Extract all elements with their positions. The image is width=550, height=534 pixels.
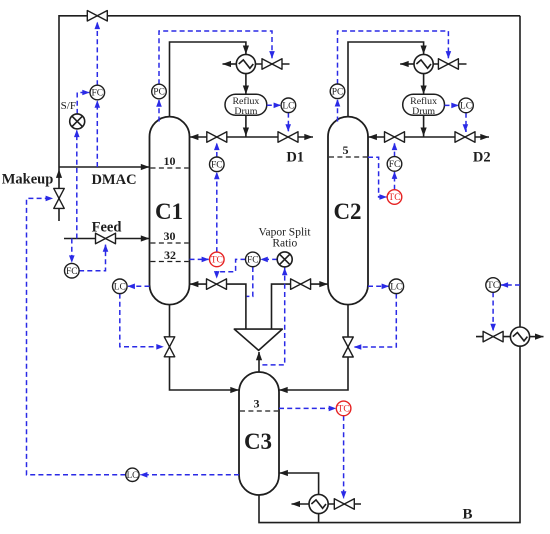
controller FC solvent-to-feed	[90, 85, 105, 100]
control line: C1 pressure tap to PC	[158, 100, 160, 122]
tray 10 line in C1	[151, 167, 189, 169]
control line: C3 level to LC	[140, 474, 239, 476]
svg-text:5: 5	[343, 143, 349, 157]
control line: FC to recycle top valve	[96, 22, 98, 85]
control line: FC to reflux 2 valve	[394, 143, 396, 157]
valve reflux 2	[385, 132, 405, 143]
ratio element vapor split multiplier	[277, 252, 292, 267]
column C2	[328, 117, 368, 305]
control line: LC to D2 valve	[464, 113, 467, 132]
vapor splitter triangle	[234, 329, 282, 350]
wire: vapor branch to C1 bottom	[190, 284, 246, 329]
valve makeup	[54, 188, 65, 208]
control line: C1 level to LC	[128, 285, 150, 287]
condenser 1 heat exchanger	[236, 54, 255, 73]
wire: vapor branch to C2 bottom	[272, 284, 329, 329]
svg-text:TC: TC	[338, 405, 350, 415]
control line: TC to reboiler steam valve	[343, 416, 345, 499]
reflux drum 2	[403, 94, 445, 115]
svg-text:D2: D2	[473, 149, 491, 165]
svg-text:C1: C1	[155, 199, 183, 224]
valve vapor to C1	[207, 279, 227, 290]
wire: condenser 1 coolant inlet	[255, 63, 289, 65]
valve C1 bottoms	[164, 337, 175, 357]
control line: LC to C2 bottoms valve	[354, 294, 396, 347]
controller FC reflux 2	[387, 157, 402, 172]
wire: condenser 2 to reflux drum 2	[423, 73, 425, 94]
wire: C3 bottoms / recycle line (bottom and right side)	[259, 16, 520, 523]
svg-text:FC: FC	[389, 160, 401, 170]
control line: feed FC to feed valve	[79, 245, 105, 271]
valve condenser 2 coolant	[438, 59, 458, 70]
svg-text:FC: FC	[66, 267, 78, 277]
valve D2	[455, 132, 475, 143]
svg-text:LC: LC	[282, 102, 294, 112]
control line: PC to condenser 1 coolant valve	[159, 31, 272, 84]
valve reboiler steam	[334, 499, 354, 510]
control line: C2 level to LC	[368, 285, 389, 287]
controller PC column 2	[330, 84, 345, 99]
wire: condenser 2 coolant inlet	[433, 63, 467, 65]
svg-text:B: B	[462, 506, 472, 522]
valve vapor to C2	[291, 279, 311, 290]
controller FC vapor split	[246, 252, 261, 267]
recycle cooler heat exchanger	[510, 327, 529, 346]
valve D1	[278, 132, 298, 143]
wire: recycle cooler coolant inlet	[476, 336, 511, 338]
control line: FC to vapor split valve	[217, 259, 246, 278]
svg-text:Ratio: Ratio	[272, 238, 297, 250]
svg-text:TC: TC	[211, 256, 223, 266]
reflux drum 1	[225, 94, 267, 115]
wire: C1 overhead vapor line to condenser	[170, 42, 246, 117]
controller FC reflux 1	[210, 157, 225, 172]
ratio element S/F multiplier	[70, 114, 85, 129]
svg-text:FC: FC	[247, 256, 259, 266]
wire: condenser 1 to reflux drum 1	[245, 73, 247, 94]
control line: TC to cooler coolant valve	[492, 292, 494, 331]
wire: reboiler steam outlet	[292, 503, 310, 505]
control line: DMAC flow measurement to FC	[96, 101, 98, 167]
controller TC column 1 tray 32	[210, 252, 225, 267]
control line: FC to reflux 1 valve	[216, 143, 218, 157]
wire: recycle top line and left drop to DMAC junction	[59, 16, 520, 167]
wire: reboiler to bottoms line	[318, 514, 320, 523]
valve recycle cooler coolant	[483, 331, 503, 342]
control line: feed flow measurement to FC	[71, 239, 73, 263]
control line: LC to C1 bottoms valve	[120, 294, 164, 347]
control line: PC to condenser 2 coolant valve	[338, 31, 449, 84]
control line: C2 pressure tap to PC	[337, 99, 339, 121]
svg-text:10: 10	[164, 154, 176, 168]
control line: C3 tray 3 temperature to TC	[279, 407, 336, 409]
wire: feed line into C1	[64, 238, 150, 240]
valve recycle top	[87, 11, 107, 21]
svg-text:C2: C2	[333, 199, 361, 224]
svg-text:LC: LC	[460, 102, 472, 112]
valve reflux 1	[207, 132, 227, 143]
tray 30 line in C1	[151, 242, 189, 244]
control line: total vapor measurement to ratio multiplier	[260, 267, 285, 365]
svg-text:FC: FC	[91, 89, 103, 99]
reboiler heat exchanger	[309, 494, 328, 513]
control line: recycle temperature to TC	[501, 284, 520, 286]
control line: TC to reflux 2 FC cascade	[394, 172, 396, 190]
wire: C1 bottoms line to C3	[170, 305, 240, 390]
svg-text:D1: D1	[286, 149, 304, 165]
svg-text:32: 32	[164, 248, 176, 262]
column C1	[150, 117, 190, 305]
wire: reboiler steam inlet	[328, 503, 361, 505]
control line: reflux drum 2 level to LC	[445, 104, 459, 106]
svg-text:3: 3	[254, 397, 260, 411]
svg-text:Vapor Split: Vapor Split	[258, 226, 311, 238]
svg-text:FC: FC	[211, 161, 223, 171]
tray 32 line in C1	[151, 261, 189, 263]
svg-text:Drum: Drum	[234, 106, 257, 117]
svg-text:LC: LC	[114, 283, 126, 293]
svg-text:Feed: Feed	[92, 219, 122, 235]
controller TC recycle cooler	[486, 278, 501, 293]
svg-text:C3: C3	[244, 429, 272, 454]
control line: LC to makeup valve	[27, 198, 126, 474]
svg-text:S/F: S/F	[61, 100, 76, 112]
svg-text:LC: LC	[390, 283, 402, 293]
valve condenser 1 coolant	[262, 59, 282, 70]
control line: tray 5 temperature to TC	[368, 157, 386, 197]
column C3	[239, 372, 279, 495]
svg-text:DMAC: DMAC	[91, 172, 136, 188]
svg-text:Makeup: Makeup	[2, 171, 54, 187]
controller TC column 3 tray 3	[336, 401, 351, 416]
control line: C1 vapor flow measurement to FC	[247, 267, 253, 296]
wire: C3 overhead vapor to splitter	[258, 352, 260, 372]
svg-text:30: 30	[164, 229, 176, 243]
svg-text:TC: TC	[388, 193, 400, 203]
tray 3 line in C3	[240, 410, 278, 412]
svg-text:TC: TC	[487, 281, 499, 291]
wire: C2 overhead vapor line to condenser	[348, 42, 424, 117]
wire: condenser 2 coolant outlet	[400, 63, 414, 65]
wire: condenser 1 coolant outlet	[223, 63, 237, 65]
wire: C2 bottoms line to C3	[279, 305, 348, 390]
controller LC column 3 base	[126, 468, 139, 481]
controller LC reflux drum 2	[459, 98, 474, 113]
wire: recycle cooler coolant outlet	[529, 336, 543, 338]
valve C2 bottoms	[343, 337, 354, 357]
control line: reflux drum 1 level to LC	[267, 104, 281, 106]
controller LC column 2 base	[389, 279, 404, 294]
control line: tray 32 temperature to TC	[190, 258, 209, 260]
wire: reboiler vapor return into C3	[279, 473, 319, 495]
wire: reflux / distillate D2 line	[368, 136, 489, 138]
control line: LC to D1 valve	[287, 113, 289, 132]
controller LC column 1 base	[113, 279, 128, 294]
wire: DMAC line into C1	[59, 166, 150, 168]
controller FC feed	[65, 263, 80, 278]
wire: reflux drum 2 liquid outlet	[423, 115, 425, 137]
wire: reflux / distillate D1 line	[190, 136, 314, 138]
valve feed	[96, 233, 116, 244]
controller PC column 1	[152, 84, 167, 99]
control line: S/F multiplier to FC	[77, 93, 89, 114]
controller TC column 2 tray 5	[387, 190, 402, 205]
svg-text:PC: PC	[153, 88, 165, 98]
svg-text:LC: LC	[127, 470, 139, 480]
svg-text:Drum: Drum	[412, 106, 435, 117]
controller LC reflux drum 1	[281, 98, 296, 113]
wire: reflux drum 1 liquid outlet	[245, 115, 247, 137]
control line: feed flow to S/F multiplier	[76, 131, 78, 239]
tray 5 line in C2	[329, 156, 367, 158]
control line: TC to reflux FC cascade	[216, 172, 218, 252]
control line: vapor split ratio to FC setpoint	[261, 258, 278, 260]
condenser 2 heat exchanger	[414, 54, 433, 73]
wire: makeup line	[58, 167, 60, 221]
svg-text:PC: PC	[332, 88, 344, 98]
